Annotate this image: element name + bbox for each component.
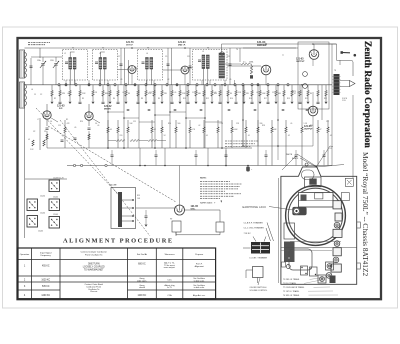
svg-text:L2: L2 [64, 53, 66, 55]
svg-text:C2: C2 [40, 94, 42, 96]
svg-text:R26: R26 [168, 123, 171, 125]
svg-text:Connect Jumper Conductor: Connect Jumper Conductor [81, 251, 107, 254]
svg-text:.05: .05 [256, 92, 258, 94]
svg-text:C5: C5 [34, 94, 36, 96]
svg-text:R3: R3 [82, 98, 84, 100]
svg-text:T2: T2 [102, 48, 104, 50]
svg-text:C12: C12 [149, 92, 152, 94]
svg-text:L5 DET. TRIMMER: L5 DET. TRIMMER [250, 258, 268, 260]
svg-text:560: 560 [198, 93, 201, 95]
svg-text:D.C.: D.C. [243, 62, 247, 64]
svg-text:R2: R2 [54, 98, 56, 100]
svg-text:1ST I.F.: 1ST I.F. [126, 45, 134, 47]
svg-text:R15: R15 [137, 195, 140, 197]
svg-text:L1: L1 [28, 139, 30, 141]
svg-text:L5: L5 [202, 51, 204, 53]
svg-text:ONE TURN: ONE TURN [88, 264, 100, 266]
svg-text:121-34: 121-34 [40, 196, 45, 198]
svg-text:R11: R11 [183, 98, 186, 100]
svg-text:7 IN KC: 7 IN KC [244, 233, 252, 235]
svg-text:MIXER: MIXER [104, 109, 111, 111]
svg-text:T4 3RD I.F. TRANS.: T4 3RD I.F. TRANS. [283, 294, 300, 297]
svg-text:T7: T7 [282, 55, 284, 57]
svg-text:T2 1ST I.F. TRANS.: T2 1ST I.F. TRANS. [283, 290, 300, 293]
svg-text:Operation: Operation [20, 253, 30, 256]
svg-text:VOICE: VOICE [342, 98, 347, 100]
svg-text:C11: C11 [187, 56, 190, 58]
svg-text:Zenith Radio Corporation: Zenith Radio Corporation [363, 41, 373, 148]
svg-text:C7: C7 [118, 56, 120, 58]
svg-text:L4: L4 [146, 53, 148, 55]
svg-text:.02: .02 [122, 92, 124, 94]
svg-text:121-64: 121-64 [40, 213, 45, 215]
svg-text:C6: C6 [95, 123, 97, 125]
svg-text:TO WAVEMAGNET: TO WAVEMAGNET [84, 269, 104, 272]
svg-text:R16: R16 [249, 98, 252, 100]
svg-text:455 KC: 455 KC [42, 266, 50, 268]
svg-text:C1-C OSC.TRIMMER: C1-C OSC.TRIMMER [244, 228, 265, 230]
svg-text:C8: C8 [95, 92, 97, 94]
svg-text:535 KC: 535 KC [42, 286, 50, 288]
svg-text:1200 KC: 1200 KC [41, 295, 50, 297]
svg-text:T3: T3 [147, 48, 149, 50]
svg-text:DRIVER: DRIVER [257, 44, 267, 47]
svg-text:1200 KC: 1200 KC [138, 295, 147, 297]
svg-text:C9: C9 [165, 56, 167, 58]
svg-text:C2: C2 [33, 131, 35, 133]
svg-text:121-65: 121-65 [38, 231, 43, 233]
svg-text:R12: R12 [206, 98, 209, 100]
svg-text:COIL: COIL [342, 100, 346, 102]
svg-text:.05: .05 [330, 135, 332, 137]
svg-text:C1A: C1A [167, 294, 172, 297]
svg-text:121-63 121-73: 121-63 121-73 [53, 178, 63, 180]
svg-text:R14: R14 [230, 98, 233, 100]
svg-text:LOOSELY COUPLED: LOOSELY COUPLED [83, 267, 105, 269]
svg-text:330: 330 [260, 123, 263, 125]
svg-text:.05: .05 [67, 93, 69, 95]
svg-text:C25: C25 [133, 121, 136, 123]
svg-text:OUTPUT: OUTPUT [304, 129, 313, 131]
svg-text:Chassis: Chassis [90, 291, 97, 293]
svg-text:T5 2ND I.F. TRANS.: T5 2ND I.F. TRANS. [283, 278, 300, 281]
svg-text:L7: L7 [37, 119, 39, 121]
svg-text:121-65: 121-65 [53, 214, 58, 216]
svg-text:220: 220 [164, 93, 167, 95]
svg-text:R6: R6 [113, 98, 115, 100]
svg-text:C23: C23 [58, 125, 61, 127]
svg-text:From Oscillator To: From Oscillator To [85, 253, 103, 256]
svg-text:wide open.: wide open. [137, 280, 147, 282]
svg-text:L6: L6 [31, 89, 33, 91]
svg-text:C13: C13 [227, 56, 230, 58]
svg-text:.05: .05 [74, 127, 76, 129]
svg-text:WHITE: WHITE [286, 154, 293, 156]
svg-text:R17: R17 [264, 98, 267, 100]
svg-text:1620 KC: 1620 KC [41, 279, 50, 281]
svg-text:2ND I.F.: 2ND I.F. [178, 45, 186, 47]
svg-text:mum output.: mum output. [164, 266, 176, 269]
svg-text:+12: +12 [329, 148, 332, 150]
svg-text:R8: R8 [141, 98, 143, 100]
svg-text:121-42: 121-42 [53, 197, 58, 199]
svg-text:R28: R28 [262, 125, 265, 127]
svg-text:47: 47 [294, 93, 296, 95]
svg-text:closed: closed [139, 287, 145, 289]
svg-text:R30: R30 [310, 125, 313, 127]
svg-text:.02: .02 [167, 79, 169, 81]
svg-text:600 KC: 600 KC [138, 264, 146, 266]
svg-text:Align Ant. osc.: Align Ant. osc. [193, 294, 206, 297]
svg-text:.02: .02 [288, 135, 290, 137]
svg-text:47: 47 [320, 129, 322, 131]
svg-text:VOLUME CONTROL: VOLUME CONTROL [250, 290, 268, 292]
svg-text:R1: R1 [66, 119, 68, 121]
svg-text:.05: .05 [120, 79, 122, 81]
svg-text:EARPHONE JACK: EARPHONE JACK [243, 206, 267, 209]
svg-text:C1-B R.F. TRIMMER: C1-B R.F. TRIMMER [244, 222, 264, 224]
svg-text:C28: C28 [236, 123, 239, 125]
svg-text:.05: .05 [97, 125, 99, 127]
svg-text:ALIGNMENT PROCEDURE: ALIGNMENT PROCEDURE [63, 237, 174, 244]
svg-text:WAFER GANG: WAFER GANG [200, 202, 213, 205]
svg-text:Input Signal: Input Signal [40, 251, 52, 254]
svg-text:.02: .02 [198, 125, 200, 127]
svg-text:C15: C15 [192, 92, 195, 94]
svg-text:560: 560 [178, 123, 181, 125]
svg-text:R.F.: R.F. [59, 108, 63, 110]
svg-text:T4: T4 [207, 48, 209, 50]
svg-text:.05: .05 [229, 79, 231, 81]
svg-text:R24: R24 [80, 121, 83, 123]
svg-text:.02: .02 [154, 129, 156, 131]
svg-text:C21: C21 [272, 92, 275, 94]
svg-text:Frequency: Frequency [41, 255, 52, 257]
svg-text:to dial scale.: to dial scale. [194, 279, 205, 282]
svg-text:R21: R21 [305, 98, 308, 100]
svg-text:Alignment: Alignment [195, 265, 205, 268]
svg-text:T8: T8 [334, 70, 336, 72]
svg-text:C31: C31 [326, 121, 329, 123]
svg-text:L3: L3 [99, 53, 101, 55]
svg-text:OUTPUT: OUTPUT [296, 61, 305, 63]
svg-text:C18: C18 [238, 92, 241, 94]
svg-text:220: 220 [120, 135, 123, 137]
svg-text:.01: .01 [248, 135, 250, 137]
svg-text:VOLUME: VOLUME [109, 185, 117, 187]
svg-text:T6: T6 [236, 49, 238, 51]
svg-text:T7 OSCILLATOR TRANS.: T7 OSCILLATOR TRANS. [283, 286, 305, 289]
svg-text:T1: T1 [72, 48, 74, 50]
svg-text:C3: C3 [44, 131, 46, 133]
svg-text:R19: R19 [287, 98, 290, 100]
svg-text:Model “Royal 750L” -- Chassis: Model “Royal 750L” -- Chassis 8AT41Z2 [361, 152, 370, 276]
svg-text:T1 R.F. TRANS.: T1 R.F. TRANS. [283, 282, 297, 285]
svg-text:R9: R9 [158, 98, 160, 100]
svg-text:Purpose: Purpose [195, 254, 204, 256]
svg-text:.05: .05 [206, 135, 208, 137]
svg-text:C1C: C1C [167, 279, 172, 281]
svg-text:.05: .05 [290, 123, 292, 125]
svg-text:R22: R22 [324, 98, 327, 100]
svg-text:to dial scale.: to dial scale. [194, 286, 205, 289]
svg-text:Set Dial At: Set Dial At [137, 253, 147, 256]
svg-text:ON-OFF SWITCH &: ON-OFF SWITCH & [250, 287, 268, 289]
svg-text:.05: .05 [110, 129, 112, 131]
svg-text:100: 100 [278, 93, 281, 95]
svg-text:BLACK: BLACK [292, 157, 299, 160]
svg-text:.05: .05 [174, 92, 176, 94]
svg-text:Tolerances: Tolerances [164, 254, 174, 256]
svg-text:470: 470 [246, 93, 249, 95]
svg-text:NOTE:: NOTE: [200, 178, 207, 180]
svg-text:.02: .02 [214, 92, 216, 94]
